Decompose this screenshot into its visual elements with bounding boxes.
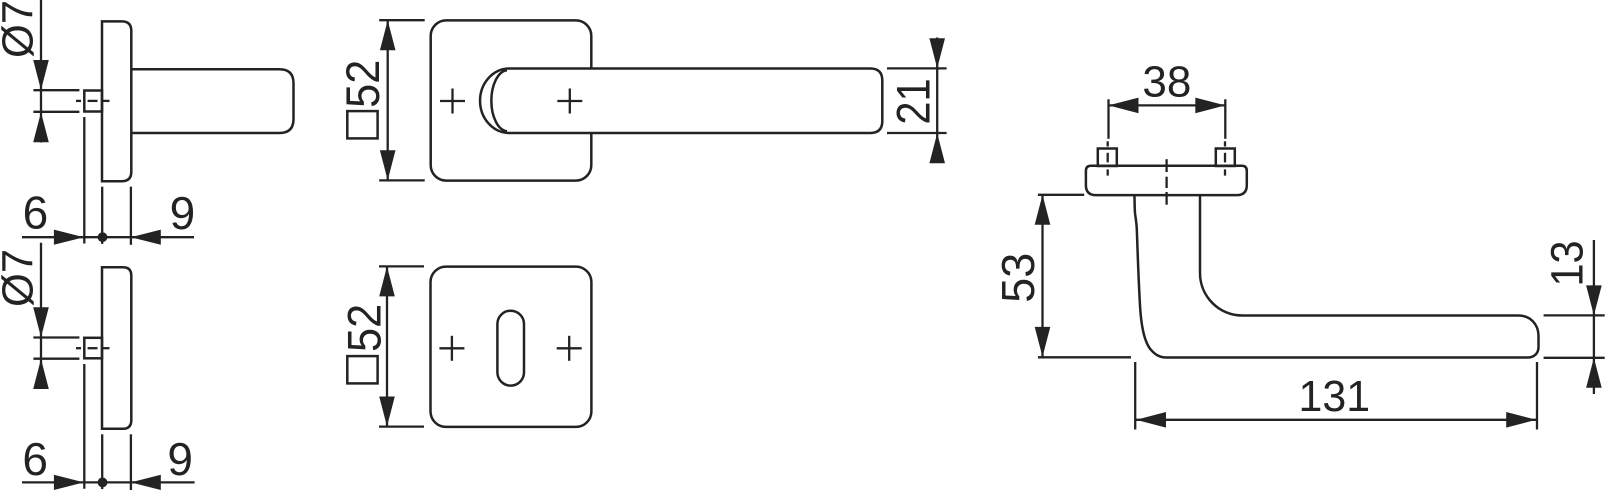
- dimension line 6/9 (bottom figure): [22, 481, 195, 483]
- extension line 131 left: [1134, 362, 1136, 430]
- svg-text:38: 38: [1142, 57, 1191, 106]
- arrow left (131): [1136, 412, 1166, 428]
- extension line rose top (52): [379, 19, 425, 21]
- arrow left (38): [1109, 98, 1139, 114]
- extension line right screw axis: [1224, 99, 1226, 139]
- arrow down (52 top): [380, 150, 396, 180]
- extension line lever bottom (13): [1544, 357, 1605, 359]
- arrow left tip (9 bottom): [131, 475, 161, 490]
- arrow down (Ø7 bottom): [33, 307, 49, 337]
- dimension line Ø7 vertical (top): [40, 0, 42, 113]
- arrow down (Ø7 top): [33, 60, 49, 90]
- centerline through spindle (top figure): [76, 100, 81, 102]
- spindle square (top figure): [84, 91, 102, 112]
- svg-text:52: 52: [336, 60, 389, 108]
- screw mark plus right (bottom rose): [557, 347, 582, 349]
- arrow right tip (6): [54, 230, 84, 245]
- svg-text:6: 6: [22, 433, 48, 485]
- svg-text:Ø7: Ø7: [0, 0, 43, 58]
- extension line from rose right face: [130, 187, 132, 245]
- svg-text:9: 9: [167, 433, 193, 485]
- spindle centerline dashes: [1165, 159, 1167, 172]
- extension line from rose right face (bottom): [130, 434, 132, 490]
- dimension line 131: [1135, 419, 1537, 421]
- screw lug right: [1216, 149, 1235, 167]
- dot junction (top figure): [98, 232, 108, 242]
- arrow up (21): [929, 133, 945, 163]
- extension line lever bottom (21): [887, 132, 947, 134]
- extension line rose bottom (52 bottom): [379, 425, 424, 427]
- extension line 131 right: [1536, 362, 1538, 430]
- extension line rose top (52 bottom): [379, 265, 424, 267]
- rose bar profile: [1086, 166, 1247, 195]
- arrow up (Ø7 bottom): [33, 359, 49, 389]
- keyhole slot: [497, 311, 524, 386]
- screw mark plus right (on lever): [557, 100, 582, 102]
- extension line top of spindle (bottom fig): [33, 336, 79, 338]
- extension line top of spindle: [33, 89, 79, 91]
- square symbol (bottom): [347, 356, 377, 383]
- spindle square (bottom figure): [84, 338, 102, 359]
- arrow down (53): [1035, 327, 1051, 357]
- lever handle front view: [480, 69, 882, 134]
- extension line lever bottom left (53): [1038, 356, 1131, 358]
- arrow left tip (9): [131, 230, 161, 245]
- extension line lever top (21): [887, 67, 947, 69]
- extension line rose bottom (53): [1038, 194, 1084, 196]
- svg-text:21: 21: [888, 78, 940, 124]
- screw centerline dashes left: [1107, 141, 1109, 146]
- dimension line 52 vertical (top): [387, 20, 389, 180]
- dimension line Ø7 vertical (bottom): [40, 243, 42, 359]
- arrow down (21): [929, 38, 945, 68]
- dimension line 6/9 (top figure): [22, 236, 194, 238]
- arrow right (131): [1506, 412, 1536, 428]
- screw mark plus left (top rose): [440, 100, 465, 102]
- svg-text:52: 52: [338, 304, 391, 352]
- extension line from rose left face: [101, 187, 103, 244]
- arrow down (13): [1586, 285, 1602, 315]
- neck inner arc: [491, 70, 507, 131]
- extension line left screw axis: [1107, 99, 1109, 139]
- screw lug left: [1098, 149, 1117, 167]
- rose side view (top figure): [102, 21, 131, 181]
- screw centerline dashes right: [1224, 141, 1226, 146]
- grip cylinder side view: [131, 69, 293, 133]
- arrow right (38): [1195, 98, 1225, 114]
- extension line bottom of spindle (bottom fig): [33, 358, 79, 360]
- extension line from spindle left face: [83, 117, 85, 244]
- arrow up (Ø7 top): [33, 112, 49, 142]
- centerline through spindle (bottom figure): [76, 347, 81, 349]
- svg-text:13: 13: [1543, 240, 1593, 286]
- svg-text:9: 9: [170, 187, 196, 239]
- arrow up (52 top): [380, 20, 396, 50]
- svg-text:131: 131: [1299, 372, 1371, 421]
- key rose side view (bottom figure): [102, 267, 131, 429]
- extension line lever top (13): [1544, 314, 1605, 316]
- dimension line 38: [1109, 104, 1226, 106]
- arrow right tip (6 bottom): [54, 475, 84, 490]
- extension line from rose left face (bottom): [101, 434, 103, 489]
- dimension line 21 vertical: [936, 38, 938, 163]
- square rose front view (top): [431, 20, 592, 180]
- dimension line 52 vertical (bottom): [386, 266, 388, 426]
- dimension line 53 vertical: [1041, 195, 1043, 357]
- arrow up (52 bottom): [379, 266, 395, 296]
- svg-text:53: 53: [992, 253, 1044, 303]
- arrow up (13): [1586, 358, 1602, 388]
- extension line bottom of spindle: [33, 111, 79, 113]
- dot junction (bottom figure): [98, 478, 108, 488]
- svg-text:Ø7: Ø7: [0, 249, 43, 307]
- square symbol (top): [347, 111, 377, 138]
- arrow down (52 bottom): [379, 397, 395, 427]
- extension line rose bottom (52): [379, 179, 425, 181]
- svg-text:6: 6: [23, 186, 49, 238]
- extension line from spindle left face (bottom): [83, 364, 85, 489]
- dimension line 13 vertical: [1593, 240, 1595, 394]
- arrow up (53): [1035, 195, 1051, 225]
- screw mark plus left (bottom rose): [439, 347, 464, 349]
- key rose front view: [431, 267, 592, 427]
- handle profile (neck + lever): [1134, 195, 1538, 357]
